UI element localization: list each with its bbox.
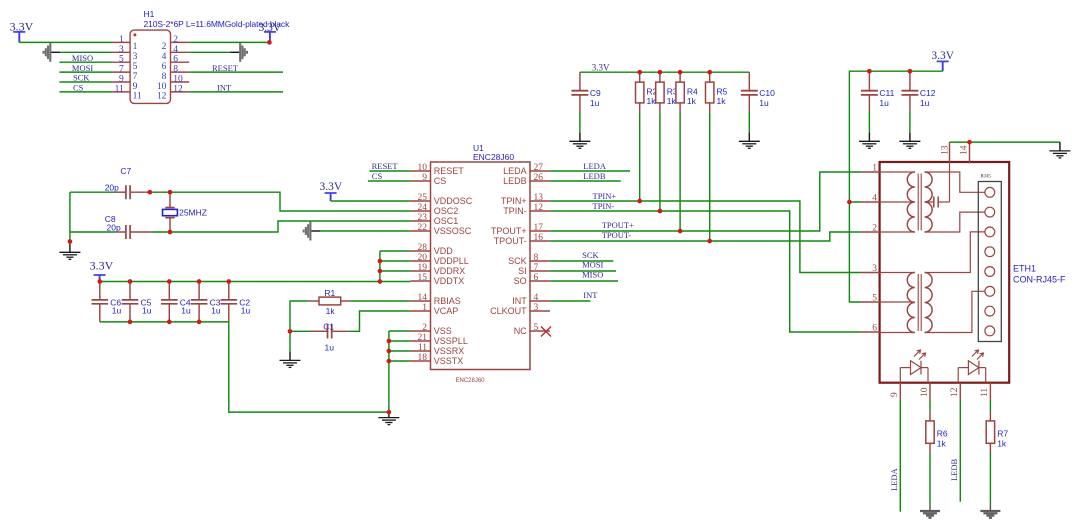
svg-text:SI: SI xyxy=(518,266,527,276)
svg-text:20: 20 xyxy=(418,253,428,263)
U1 pin 20 VDDPLL xyxy=(411,260,431,262)
junction R4 TPOUT+ xyxy=(678,229,683,234)
H1 pin 8 xyxy=(171,71,190,73)
svg-text:TPIN-: TPIN- xyxy=(593,201,615,211)
svg-text:VDDPLL: VDDPLL xyxy=(434,256,469,266)
op-amp U1 ENC28J60 body xyxy=(431,162,531,370)
wire INT from H1 pin 12 xyxy=(189,91,283,93)
capacitor C12 xyxy=(901,71,935,111)
wire H1 pin 2 to 3.3V xyxy=(189,41,270,43)
capacitor C4 xyxy=(161,282,191,322)
svg-text:4: 4 xyxy=(534,293,539,303)
ground under crystal rail xyxy=(59,252,80,259)
3.3V power flag xyxy=(320,181,343,201)
svg-text:3.3V: 3.3V xyxy=(931,50,954,62)
svg-text:3.3V: 3.3V xyxy=(592,63,610,73)
resistor R5 xyxy=(706,72,728,112)
svg-text:VDDRX: VDDRX xyxy=(434,266,466,276)
U1 pin 25 VDDOSC xyxy=(411,200,431,202)
wire CS to U1 xyxy=(368,180,411,182)
U1 pin 14 RBIAS xyxy=(411,300,431,302)
junction VDDRX xyxy=(378,269,383,274)
junction R2 top xyxy=(637,70,642,75)
svg-text:6: 6 xyxy=(173,55,178,65)
svg-text:TPOUT+: TPOUT+ xyxy=(602,220,634,230)
capacitor C1 xyxy=(290,321,349,352)
svg-text:17: 17 xyxy=(534,223,544,233)
H1 pin 3 xyxy=(112,51,131,53)
ground under VSS xyxy=(378,418,399,425)
svg-text:1k: 1k xyxy=(647,96,657,106)
resistor R4 xyxy=(676,72,698,112)
wire H1 pin 3 to ground xyxy=(60,51,111,53)
svg-text:24: 24 xyxy=(418,203,428,213)
U1 pin 11 VSSRX xyxy=(411,350,431,352)
wire R2 to TPIN+ xyxy=(639,113,641,201)
svg-text:1u: 1u xyxy=(759,98,769,108)
svg-text:NC: NC xyxy=(514,326,527,336)
U1 pin 23 OSC1 xyxy=(411,220,431,222)
resistor R7 xyxy=(986,412,1008,453)
svg-text:1k: 1k xyxy=(326,306,336,316)
T2 secondary winding xyxy=(925,273,933,333)
svg-text:3: 3 xyxy=(133,52,138,62)
svg-text:12: 12 xyxy=(950,387,960,397)
junction R4 top xyxy=(678,70,683,75)
ground under C12 xyxy=(899,141,920,148)
svg-text:3: 3 xyxy=(119,45,124,55)
T2 core xyxy=(917,274,919,331)
U1 pin 13 TPIN+ xyxy=(530,200,550,202)
svg-text:RESET: RESET xyxy=(372,161,399,171)
resistor R1 xyxy=(309,288,351,316)
junction at RJ45 pin 4 xyxy=(847,200,852,205)
svg-text:C1: C1 xyxy=(323,321,334,331)
svg-text:4: 4 xyxy=(162,52,167,62)
svg-text:H1: H1 xyxy=(144,9,155,19)
wire decoupling ground rail xyxy=(100,321,229,323)
svg-text:MISO: MISO xyxy=(582,270,603,280)
svg-text:1k: 1k xyxy=(667,96,677,106)
svg-text:8: 8 xyxy=(162,72,167,82)
svg-text:18: 18 xyxy=(418,353,428,363)
svg-text:9: 9 xyxy=(422,173,427,183)
svg-text:14: 14 xyxy=(959,145,969,155)
junction crystal top xyxy=(168,190,173,195)
junction VDDTX xyxy=(378,279,383,284)
junction R5 TPOUT- xyxy=(707,239,712,244)
H1 pin 7 xyxy=(112,71,131,73)
svg-text:SCK: SCK xyxy=(582,250,599,260)
svg-text:5: 5 xyxy=(119,55,124,65)
svg-text:SCK: SCK xyxy=(73,73,90,83)
junction C4 bottom xyxy=(167,320,172,325)
junction C3 bottom xyxy=(197,320,202,325)
transformer T2 (RX) xyxy=(880,232,985,333)
svg-text:2: 2 xyxy=(162,42,167,52)
ground far right xyxy=(1049,151,1070,158)
wire LEDB down xyxy=(959,400,961,502)
svg-text:ETH1: ETH1 xyxy=(1013,264,1036,274)
capacitor C10 xyxy=(741,72,775,111)
svg-text:10: 10 xyxy=(173,75,183,85)
U1 pin 3 CLKOUT xyxy=(530,310,550,312)
ETH1 pin 11 xyxy=(989,383,991,400)
junction C3 top xyxy=(197,279,202,284)
svg-text:1k: 1k xyxy=(997,439,1007,449)
svg-text:11: 11 xyxy=(133,92,142,102)
ETH1 pin 10 xyxy=(929,383,931,400)
svg-text:1: 1 xyxy=(119,35,124,45)
svg-text:3: 3 xyxy=(534,303,539,313)
junction VSSRX xyxy=(387,349,392,354)
capacitor C11 xyxy=(861,71,895,111)
svg-text:C7: C7 xyxy=(120,166,131,176)
svg-text:10: 10 xyxy=(920,387,930,397)
ETH1 pin 9 xyxy=(899,383,901,400)
svg-text:LEDB: LEDB xyxy=(583,171,606,181)
svg-text:22: 22 xyxy=(418,223,428,233)
wire RJ45 pins 13,14 to ground xyxy=(950,141,1060,143)
junction C4 top xyxy=(167,279,172,284)
ETH1 pin 3 xyxy=(861,272,880,274)
svg-text:VCAP: VCAP xyxy=(434,306,459,316)
svg-text:10: 10 xyxy=(418,163,428,173)
svg-text:SO: SO xyxy=(514,276,527,286)
junction crystal bottom xyxy=(168,230,173,235)
U1 pin 4 INT xyxy=(530,300,550,302)
wire 3.3V to H1 pin 1 xyxy=(19,41,111,43)
svg-text:VSSPLL: VSSPLL xyxy=(434,336,468,346)
svg-text:2: 2 xyxy=(422,323,427,333)
H1 pin 10 xyxy=(171,81,190,83)
svg-text:9: 9 xyxy=(119,75,124,85)
U1 pin 10 RESET xyxy=(411,170,431,172)
svg-text:3.3V: 3.3V xyxy=(259,22,282,34)
svg-text:1: 1 xyxy=(133,42,138,52)
svg-text:16: 16 xyxy=(534,233,544,243)
junction C5 bottom xyxy=(128,320,133,325)
svg-text:1k: 1k xyxy=(717,96,727,106)
svg-text:RJ45: RJ45 xyxy=(981,175,992,180)
wire to VDD pin 28 xyxy=(380,250,411,252)
junction R5 top xyxy=(707,70,712,75)
svg-text:TPOUT-: TPOUT- xyxy=(494,236,527,246)
LED B inside ETH1 xyxy=(958,350,986,383)
T1 secondary winding xyxy=(925,172,933,232)
U1 pin 18 VSSTX xyxy=(411,360,431,362)
svg-text:2: 2 xyxy=(173,35,178,45)
svg-text:RBIAS: RBIAS xyxy=(434,296,461,306)
ground under R1/C1 xyxy=(280,360,301,367)
svg-text:VSSRX: VSSRX xyxy=(434,346,465,356)
wire to VDDRX pin 19 xyxy=(380,270,411,272)
wire R3 to TPIN- xyxy=(659,113,661,211)
wire R1 left to C1 node xyxy=(290,301,309,352)
T2 secondary bottom to jack pin 6 xyxy=(925,291,985,332)
svg-text:23: 23 xyxy=(418,213,428,223)
wire LEDA down xyxy=(899,400,901,512)
wire R4 to TPOUT+ xyxy=(679,113,681,231)
T1 primary center tap xyxy=(880,201,915,203)
U1 pin 26 LEDB xyxy=(530,180,550,182)
U1 NC pin no-connect X xyxy=(541,327,551,337)
U1 pin 19 VDDRX xyxy=(411,270,431,272)
T2 primary winding xyxy=(907,273,915,333)
H1 pin 5 xyxy=(112,61,131,63)
svg-text:CLKOUT: CLKOUT xyxy=(490,306,527,316)
svg-text:R1: R1 xyxy=(324,288,335,298)
svg-text:TPOUT+: TPOUT+ xyxy=(491,226,527,236)
svg-text:OSC2: OSC2 xyxy=(434,206,459,216)
svg-text:1u: 1u xyxy=(211,306,221,316)
junction C5 top xyxy=(128,279,133,284)
svg-text:INT: INT xyxy=(512,296,527,306)
ETH1 pin 14 xyxy=(969,142,971,163)
wire 3.3V to RJ45 center taps xyxy=(849,71,942,202)
U1 pin 2 VSS xyxy=(411,330,431,332)
junction R1 C1 ground xyxy=(288,329,293,334)
resistor R3 xyxy=(656,72,678,112)
svg-text:LEDB: LEDB xyxy=(949,458,959,481)
wire LEDA xyxy=(550,170,630,172)
svg-text:1u: 1u xyxy=(112,306,122,316)
svg-text:27: 27 xyxy=(534,163,544,173)
H1 pin 12 xyxy=(171,91,190,93)
wire 3.3V rail to VDD pins xyxy=(100,281,380,283)
svg-text:5: 5 xyxy=(872,294,877,304)
U1 pin 6 SO xyxy=(530,280,550,282)
wire center tap vertical to pin 5 xyxy=(849,202,860,302)
T1 secondary top to jack pin 1 xyxy=(925,172,985,192)
wire to VDDTX pin 15 xyxy=(380,281,411,283)
RJ45 jack contact 7 xyxy=(985,306,995,316)
svg-text:INT: INT xyxy=(217,83,232,93)
svg-text:5: 5 xyxy=(133,62,138,72)
svg-text:26: 26 xyxy=(534,173,544,183)
svg-text:RESET: RESET xyxy=(434,166,465,176)
transformer T1 (TX) xyxy=(880,162,985,232)
svg-text:7: 7 xyxy=(534,263,539,273)
junction VDDPLL xyxy=(378,259,383,264)
svg-text:CS: CS xyxy=(434,176,447,186)
capacitor C8 xyxy=(105,214,150,239)
wire VSSOSC to ground xyxy=(320,230,410,232)
T2 primary center tap xyxy=(880,301,915,303)
svg-text:6: 6 xyxy=(534,273,539,283)
svg-text:8: 8 xyxy=(173,65,178,75)
wire to far right ground xyxy=(1059,142,1061,151)
svg-text:INT: INT xyxy=(583,290,598,300)
3.3V power flag xyxy=(259,22,282,43)
RJ45 jack contact 6 xyxy=(985,286,995,296)
svg-text:RESET: RESET xyxy=(212,63,239,73)
ground under C9 xyxy=(569,141,590,148)
junction VSS ground node xyxy=(387,410,392,415)
wire C9 to ground xyxy=(579,111,581,132)
svg-text:5: 5 xyxy=(534,323,539,333)
wire R6 to ground xyxy=(929,453,931,503)
junction VSSTX xyxy=(387,359,392,364)
RJ45 jack contact 5 xyxy=(985,267,995,277)
capacitor C9 xyxy=(571,72,601,111)
svg-text:9: 9 xyxy=(890,392,900,397)
svg-text:25MHZ: 25MHZ xyxy=(179,207,207,217)
svg-text:3.3V: 3.3V xyxy=(10,19,34,33)
svg-text:MOSI: MOSI xyxy=(72,63,93,73)
wire SCK xyxy=(550,260,613,262)
ground under C10 xyxy=(739,141,760,148)
wire pin10 to R6 xyxy=(929,400,931,412)
svg-text:CS: CS xyxy=(372,171,383,181)
svg-text:MOSI: MOSI xyxy=(582,260,603,270)
U1 pin 12 TPIN- xyxy=(530,210,550,212)
svg-text:4: 4 xyxy=(872,194,877,204)
svg-text:ENC28J60: ENC28J60 xyxy=(456,378,486,384)
wire crystal top to OSC2 xyxy=(70,191,116,193)
svg-text:OSC1: OSC1 xyxy=(434,216,459,226)
svg-text:14: 14 xyxy=(418,293,428,303)
wire TPIN- to RJ45 pin 6 xyxy=(550,211,861,332)
svg-text:LEDA: LEDA xyxy=(583,161,607,171)
wire to VDDPLL pin 20 xyxy=(380,260,411,262)
svg-text:R7: R7 xyxy=(997,428,1008,438)
svg-text:8: 8 xyxy=(534,253,539,263)
wire to ground xyxy=(289,352,291,361)
U1 pin 1 VCAP xyxy=(411,310,431,312)
svg-text:28: 28 xyxy=(418,243,428,253)
wire C10 to ground xyxy=(748,111,750,132)
svg-text:7: 7 xyxy=(119,65,124,75)
ground at VSSOSC (gray) xyxy=(304,222,311,241)
ETH1 pin 6 xyxy=(861,331,880,333)
wire ground rail to VSS node xyxy=(229,322,389,412)
wire R1 to RBIAS pin 14 xyxy=(350,300,411,302)
wire to VSSPLL pin 21 xyxy=(389,340,411,342)
svg-text:C12: C12 xyxy=(920,88,936,98)
T1 secondary bottom to jack pin 2 xyxy=(925,212,985,232)
connector ETH1 CON-RJ45-F body xyxy=(880,162,1010,383)
junction R3 TPIN- xyxy=(658,209,663,214)
ETH1 pin 12 xyxy=(959,383,961,400)
U1 pin 21 VSSPLL xyxy=(411,340,431,342)
wire RESET from H1 pin 8 xyxy=(189,71,283,73)
capacitor C5 xyxy=(122,282,152,322)
svg-text:9: 9 xyxy=(133,82,138,92)
ground under R6 (gray) xyxy=(920,511,940,518)
junction C2 top xyxy=(226,279,231,284)
ETH1 pin 1 xyxy=(861,171,880,173)
svg-text:VSSTX: VSSTX xyxy=(434,356,464,366)
svg-text:1u: 1u xyxy=(241,306,251,316)
RJ45 jack contact 4 xyxy=(985,247,995,257)
wire MOSI xyxy=(59,71,111,73)
H1 pin 9 xyxy=(112,81,131,83)
svg-text:VSS: VSS xyxy=(434,326,452,336)
ETH1 pin 4 xyxy=(861,201,880,203)
svg-text:2: 2 xyxy=(872,224,877,234)
svg-text:1u: 1u xyxy=(181,306,191,316)
wire SI xyxy=(550,270,616,272)
svg-text:VDDTX: VDDTX xyxy=(434,276,465,286)
svg-text:11: 11 xyxy=(115,84,124,94)
svg-text:1: 1 xyxy=(422,303,427,313)
wire left crystal rail xyxy=(69,192,71,241)
T2 primary bottom lead xyxy=(880,332,915,334)
svg-text:C10: C10 xyxy=(759,88,775,98)
T1 primary winding xyxy=(907,172,915,232)
wire TPOUT+ to RJ45 pin 1 xyxy=(550,172,861,231)
U1 pin 27 LEDA xyxy=(530,170,550,172)
ETH1 pin 2 xyxy=(861,231,880,233)
wire TPOUT- to RJ45 pin 2 xyxy=(550,232,861,241)
svg-text:VDD: VDD xyxy=(434,246,454,256)
svg-text:12: 12 xyxy=(157,92,167,102)
wire C1 to VCAP pin 1 xyxy=(349,311,410,331)
svg-text:TPIN+: TPIN+ xyxy=(593,191,617,201)
svg-text:MISO: MISO xyxy=(72,53,93,63)
H1 pin 4 xyxy=(171,51,190,53)
svg-text:12: 12 xyxy=(534,203,544,213)
wire SO xyxy=(550,280,618,282)
resistor R6 xyxy=(926,412,948,453)
svg-text:3.3V: 3.3V xyxy=(90,259,114,273)
svg-text:SCK: SCK xyxy=(508,256,527,266)
H1 pin 6 xyxy=(171,61,190,63)
U1 pin 15 VDDTX xyxy=(411,280,431,282)
svg-text:6: 6 xyxy=(162,62,167,72)
junction C6 top xyxy=(97,279,102,284)
capacitor C3 xyxy=(191,282,221,322)
svg-text:13: 13 xyxy=(534,193,544,203)
wire crystal bottom to OSC1 xyxy=(70,231,116,233)
svg-text:6: 6 xyxy=(872,324,877,334)
wire H1 pin 4 to ground xyxy=(189,51,230,53)
junction VSSPLL xyxy=(387,339,392,344)
wire to VSSRX pin 11 xyxy=(389,350,411,352)
U1 pin 9 CS xyxy=(411,180,431,182)
svg-text:3: 3 xyxy=(872,264,877,274)
ground under R7 (gray) xyxy=(980,511,1000,518)
H1 pin-1 marker dot xyxy=(133,33,136,36)
U1 pin 28 VDD xyxy=(411,250,431,252)
T1 primary top lead xyxy=(880,171,908,173)
H1 pin 1 xyxy=(112,41,131,43)
wire RESET to U1 xyxy=(369,170,410,172)
svg-text:TPOUT-: TPOUT- xyxy=(602,230,632,240)
H1 pin 11 xyxy=(112,91,131,93)
svg-text:CS: CS xyxy=(73,83,84,93)
wire 3.3V to VDDOSC xyxy=(331,200,411,202)
wire 3.3V top rail xyxy=(580,71,749,73)
T1 center-tap capacitor xyxy=(925,162,950,207)
wire R7 to ground xyxy=(989,453,991,503)
junction C12 top xyxy=(908,69,913,74)
wire to VSS pin 2 xyxy=(389,330,411,332)
svg-text:VSSOSC: VSSOSC xyxy=(434,226,472,236)
U1 pin 7 SI xyxy=(530,270,550,272)
U1 pin 24 OSC2 xyxy=(411,210,431,212)
svg-text:LEDB: LEDB xyxy=(503,176,527,186)
U1 pin 22 VSSOSC xyxy=(411,230,431,232)
svg-text:R6: R6 xyxy=(937,428,948,438)
svg-text:1: 1 xyxy=(872,164,877,174)
svg-text:25: 25 xyxy=(418,193,428,203)
svg-text:12: 12 xyxy=(173,84,183,94)
wire VSS vertical xyxy=(388,331,390,412)
svg-text:TPIN+: TPIN+ xyxy=(501,196,527,206)
svg-text:1u: 1u xyxy=(590,98,600,108)
